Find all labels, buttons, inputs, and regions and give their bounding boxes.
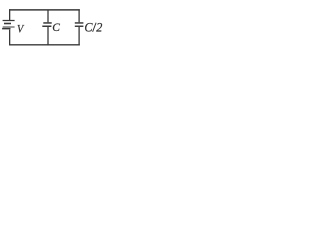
- svg-text:2: 2: [96, 21, 102, 35]
- capacitor C/2 plate bottom: [75, 25, 84, 27]
- battery V plate long 2: [3, 26, 15, 28]
- capacitor C plate top: [43, 22, 51, 24]
- wire left lower: [9, 30, 11, 46]
- wire middle branch lower: [47, 27, 49, 45]
- svg-text:V: V: [17, 23, 24, 36]
- wire middle branch upper: [47, 10, 49, 22]
- wire right upper: [78, 9, 80, 22]
- capacitor C plate bottom: [42, 25, 51, 27]
- battery V plate short 2: [2, 28, 10, 30]
- wire left upper: [9, 9, 11, 20]
- capacitor C/2 plate top: [75, 22, 84, 24]
- svg-text:C: C: [84, 21, 93, 35]
- battery V plate short 1: [4, 23, 11, 25]
- label C/2 slash: [93, 23, 97, 32]
- wire right lower: [78, 27, 80, 45]
- battery V plate long 1: [3, 20, 15, 22]
- svg-text:C: C: [52, 22, 60, 34]
- wire top: [9, 9, 80, 11]
- wire bottom: [9, 44, 80, 46]
